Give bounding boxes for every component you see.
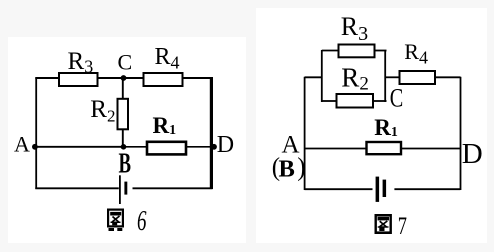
wire: R1 to node D <box>187 146 213 148</box>
wire: bracket to R2 <box>322 100 337 102</box>
svg-text:C: C <box>390 84 404 113</box>
wire: bracket to R3 <box>322 50 339 52</box>
svg-text:D: D <box>217 132 234 158</box>
resistor R1 <box>367 115 402 154</box>
resistor R4 <box>144 44 183 86</box>
wire: bottom left segment <box>35 187 119 189</box>
wire: left vertical A to top and bottom <box>35 78 37 190</box>
wire: middle segment A to R1 <box>305 148 367 150</box>
caption figure-7 glyph TU <box>376 215 391 234</box>
node A <box>14 132 38 157</box>
wire: bottom left segment <box>305 188 373 190</box>
node B <box>119 144 132 180</box>
resistor R2 <box>90 96 128 130</box>
background card left <box>8 37 246 243</box>
battery cell E2 <box>376 177 387 202</box>
wire: R3 to right bracket <box>375 50 387 52</box>
battery cell E1 <box>120 175 127 204</box>
resistor R3 <box>59 48 98 86</box>
wire: B to R1 <box>124 146 147 148</box>
wire: right vertical rail (thick) <box>210 77 213 189</box>
wire: top left segment <box>35 77 58 79</box>
wire: parallel left bracket <box>321 50 323 102</box>
svg-text:B: B <box>119 148 132 180</box>
wire: parallel right bracket <box>384 50 386 102</box>
node D <box>211 132 234 158</box>
wire: R4 to right rail <box>435 76 461 78</box>
svg-text:D: D <box>462 138 483 170</box>
resistor R3 <box>339 12 375 57</box>
node B label <box>272 152 280 182</box>
wire: R2 to right bracket <box>373 100 387 102</box>
svg-text:): ) <box>297 152 305 182</box>
wire: bottom right segment <box>133 187 213 189</box>
wire: left vertical rail <box>304 77 306 190</box>
svg-text:6: 6 <box>137 205 147 237</box>
resistor R2 <box>337 62 374 107</box>
caption figure-6 glyph TU <box>108 210 123 231</box>
svg-text:A: A <box>14 132 30 157</box>
wire: R2 down to node B <box>122 130 124 148</box>
wire: stub to parallel bracket <box>305 76 322 78</box>
wire: node C to R4 <box>123 77 143 79</box>
svg-text:C: C <box>118 50 133 75</box>
background card right <box>256 8 487 243</box>
svg-text:7: 7 <box>398 213 407 240</box>
resistor R1 <box>147 113 186 154</box>
svg-text:B: B <box>279 155 295 182</box>
wire: R4 to right rail <box>183 77 213 79</box>
resistor R4 <box>400 39 436 84</box>
wire: R1 to right rail <box>401 148 461 150</box>
wire: bracket to R4 <box>386 76 400 78</box>
wire: R3 to node C <box>98 77 123 79</box>
wire: right vertical rail <box>460 77 462 190</box>
node C <box>118 50 133 81</box>
wire: node C down to R2 <box>122 78 124 98</box>
wire: A to B middle segment <box>36 146 124 148</box>
wire: bottom right segment <box>394 188 460 190</box>
